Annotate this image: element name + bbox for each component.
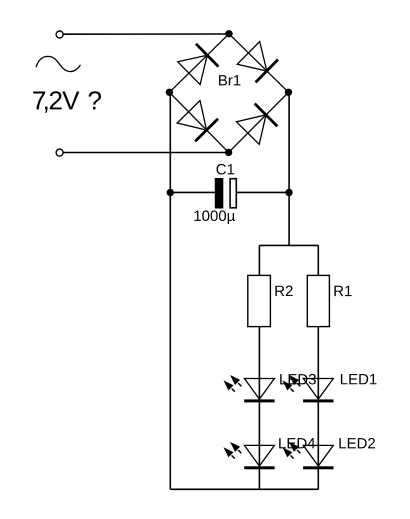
node capacitor left junction (167, 189, 174, 196)
LED2 cathode bar (303, 466, 333, 469)
bridge Br1 diamond wires (169, 34, 229, 93)
diode D1 (bridge top-left) (178, 55, 208, 84)
AC source sine symbol (36, 56, 81, 71)
node top (bridge) (225, 30, 232, 37)
LED1 triangle (303, 379, 333, 400)
node bottom (bridge) (225, 149, 232, 156)
label 7,2V ? (33, 91, 101, 113)
diode D2 (bridge top-right) (237, 42, 267, 72)
wire capacitor row right (237, 191, 289, 193)
diode D3 (bridge bottom-left) (177, 101, 206, 131)
wire right LED column (317, 327, 319, 490)
wire bottom return bus (170, 488, 318, 490)
terminal bottom-left (56, 149, 63, 156)
LED1 arrows (289, 375, 299, 385)
terminal top-left (56, 31, 63, 38)
LED4 cathode bar (244, 466, 274, 469)
label LED1 (341, 374, 377, 384)
LED3 triangle (244, 379, 274, 400)
capacitor C1 plate positive (outline) (230, 179, 236, 208)
LED3 arrows (230, 375, 240, 385)
node capacitor right junction (285, 189, 292, 196)
LED1 cathode bar (303, 399, 333, 402)
wire AC top: terminal to bridge top node (63, 33, 229, 35)
wire AC bottom: terminal to bridge bottom node (63, 152, 229, 154)
label LED3 (280, 374, 316, 385)
label Br1 (219, 75, 240, 85)
label LED2 (339, 438, 375, 449)
label 1000µ (194, 210, 235, 224)
wire R2 top stub (258, 245, 260, 275)
LED3 cathode bar (244, 399, 274, 402)
label R2 (275, 286, 292, 297)
LED4 triangle (244, 445, 274, 466)
label R1 (334, 286, 351, 296)
resistor R1 (307, 275, 329, 326)
label LED4 (279, 438, 315, 448)
label C1 (217, 164, 235, 175)
node right (bridge DC+) (285, 89, 292, 96)
diode D4 (bridge bottom-right) (237, 115, 267, 144)
wire R1 top stub (317, 245, 319, 275)
wire capacitor row left (170, 191, 215, 193)
resistor R2 (248, 275, 271, 326)
wire resistor bus horizontal (259, 244, 318, 246)
wire right vertical from bridge DC+ (288, 92, 290, 245)
capacitor C1 plate negative (filled) (215, 178, 224, 209)
wire left vertical rail (169, 92, 171, 489)
wire left LED column (258, 327, 260, 490)
node left (bridge DC-) (166, 89, 173, 96)
LED4 arrows (230, 442, 240, 452)
LED2 arrows (289, 442, 299, 452)
LED2 triangle (303, 445, 333, 466)
